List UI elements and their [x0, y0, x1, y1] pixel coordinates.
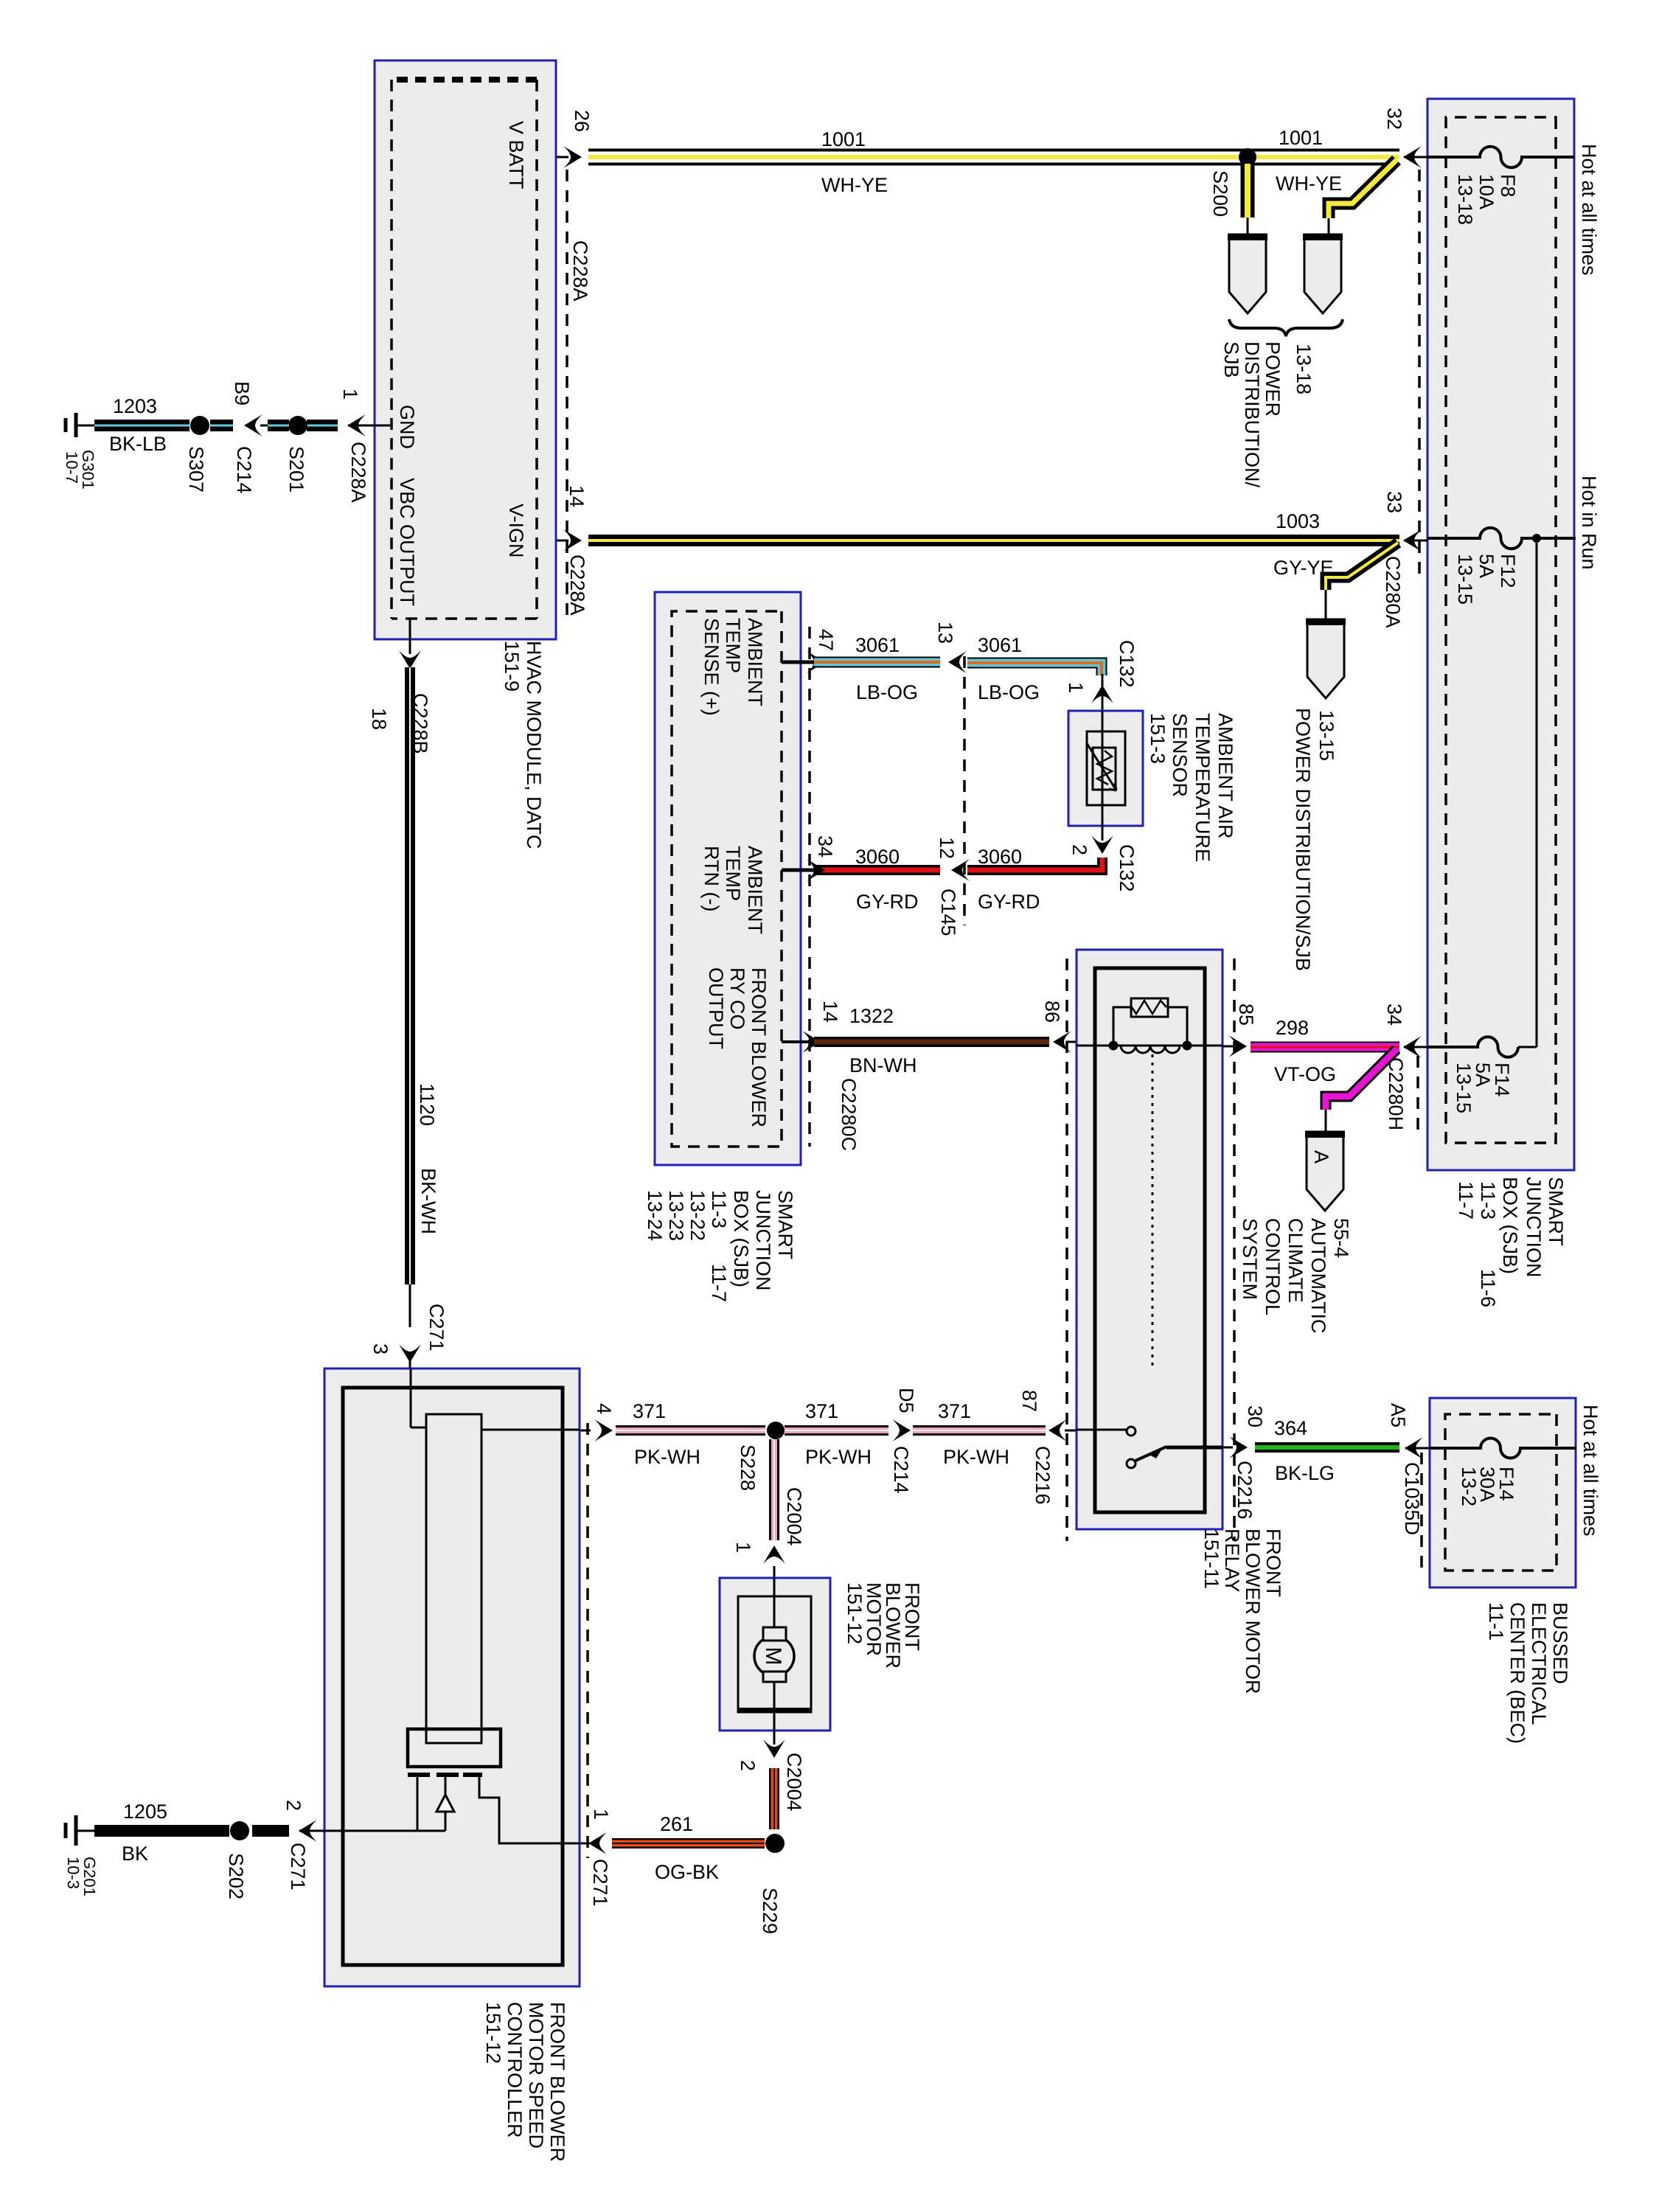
- front blower motor speed controller box: [324, 1368, 580, 1986]
- svg-text:CLIMATE: CLIMATE: [1284, 1218, 1307, 1303]
- label FRONT BLOWER MOTOR RELAY 151-11: [1200, 1528, 1284, 1694]
- svg-text:JUNCTION: JUNCTION: [1523, 1177, 1545, 1278]
- connector C271 arrow at controller pin 3: [399, 1344, 421, 1363]
- svg-text:1: 1: [732, 1542, 754, 1553]
- controller pin 4 arrow: [594, 1419, 613, 1441]
- label AMBIENT TEMP RTN (-): [700, 846, 766, 934]
- HVAC inner dashed boundary: [392, 77, 537, 83]
- connector C271 dashed line at controller: [586, 1423, 589, 1858]
- svg-text:26: 26: [571, 110, 593, 132]
- thermistor symbol: [1093, 748, 1116, 790]
- svg-text:11-3: 11-3: [708, 1190, 730, 1228]
- svg-text:11-7: 11-7: [708, 1264, 730, 1302]
- sensor pin 1 arrow C132: [1091, 685, 1113, 703]
- svg-text:A5: A5: [1387, 1403, 1409, 1427]
- splice S307: [190, 416, 209, 435]
- svg-text:SENSOR: SENSOR: [1169, 713, 1191, 797]
- svg-text:13-18: 13-18: [1293, 344, 1315, 394]
- svg-text:47: 47: [815, 629, 837, 651]
- svg-text:C2004: C2004: [783, 1487, 805, 1546]
- wire VBC OUTPUT pin: [409, 618, 411, 654]
- connector C145 arrow (12): [951, 859, 970, 881]
- svg-text:10-3: 10-3: [64, 1857, 83, 1889]
- svg-text:2: 2: [282, 1800, 305, 1811]
- controller pin 1 arrow C271: [588, 1832, 607, 1854]
- connector C2280A dashed line: [1418, 170, 1421, 582]
- svg-text:GY-RD: GY-RD: [978, 891, 1040, 913]
- connector C228B arrow: [399, 650, 421, 669]
- relay switch: [1127, 1427, 1135, 1436]
- fuse F8 10A 13-18: [1427, 147, 1574, 168]
- svg-text:86: 86: [1041, 1001, 1063, 1023]
- svg-text:13-15: 13-15: [1453, 1062, 1475, 1113]
- pin 14 (HVAC V-IGN): [563, 529, 582, 552]
- connector pin power distribution (from pin 32): [1304, 234, 1341, 313]
- wire S200 branch to SJB power distribution: [1241, 164, 1255, 218]
- svg-text:S229: S229: [759, 1888, 781, 1934]
- svg-text:FRONT BLOWER: FRONT BLOWER: [546, 2002, 568, 2162]
- svg-text:1322: 1322: [849, 1005, 894, 1027]
- svg-text:55-4: 55-4: [1330, 1218, 1352, 1258]
- wire 371 PK-WH segment (D5 to S228): [785, 1425, 888, 1436]
- connector C1035D dashed line: [1420, 1453, 1423, 1571]
- pin 34 (ambient): [782, 869, 814, 872]
- label FRONT BLOWER MOTOR SPEED CONTROLLER 151-12: [482, 2002, 568, 2162]
- pin 47: [782, 661, 814, 664]
- fuse F14 30A 13-2 (BEC): [1430, 1438, 1576, 1458]
- wire 1203 BK-LB: [94, 420, 189, 431]
- svg-text:F14: F14: [1495, 1467, 1517, 1501]
- wire 1003 elbow to power distribution pin: [1326, 543, 1398, 590]
- label HVAC MODULE, DATC 151-9: [501, 641, 545, 849]
- relay actuation dotted line: [1152, 1054, 1154, 1368]
- label SMART JUNCTION BOX (SJB) 11-3 11-6 11-7: [1455, 1177, 1567, 1307]
- pin 32: [1404, 156, 1427, 159]
- svg-text:14: 14: [566, 485, 588, 507]
- svg-text:SJB: SJB: [1220, 341, 1242, 378]
- relay resistor: [1131, 998, 1168, 1017]
- svg-text:Hot in Run: Hot in Run: [1578, 476, 1600, 570]
- svg-text:BK: BK: [122, 1843, 148, 1865]
- label FRONT BLOWER MOTOR 151-12: [844, 1582, 923, 1669]
- svg-text:C228A: C228A: [347, 442, 369, 503]
- wire hot-in-run bus: [1536, 538, 1538, 1047]
- connector C228A arrow at GND: [347, 414, 366, 437]
- svg-text:C2280H: C2280H: [1385, 1057, 1407, 1130]
- svg-text:FRONT BLOWER: FRONT BLOWER: [748, 967, 770, 1127]
- svg-text:HVAC MODULE, DATC: HVAC MODULE, DATC: [523, 641, 545, 849]
- relay pin 85 arrow: [1228, 1035, 1247, 1057]
- wire 364 BK-LG: [1255, 1442, 1399, 1453]
- svg-text:LB-OG: LB-OG: [856, 681, 918, 703]
- label 55-4 AUTOMATIC CLIMATE CONTROL SYSTEM: [1239, 1218, 1352, 1334]
- connector C1035D arrow: [1405, 1437, 1423, 1459]
- connector C228A dashed line at HVAC: [566, 170, 568, 619]
- controller internal: mosfet body: [408, 1729, 501, 1767]
- svg-text:33: 33: [1383, 491, 1405, 513]
- svg-text:C2280C: C2280C: [838, 1078, 860, 1151]
- svg-text:M: M: [761, 1647, 785, 1666]
- svg-text:3061: 3061: [978, 634, 1022, 656]
- wire 3060 GY-RD segment B: [967, 858, 1102, 870]
- svg-text:3: 3: [369, 1343, 392, 1354]
- svg-text:10A: 10A: [1475, 174, 1498, 209]
- junction dot hot-in-run bus: [1532, 534, 1541, 543]
- svg-text:F8: F8: [1497, 174, 1519, 198]
- svg-text:RY CO: RY CO: [726, 967, 748, 1030]
- connector C214 arrow D5: [892, 1419, 911, 1441]
- svg-text:POWER DISTRIBUTION/SJB: POWER DISTRIBUTION/SJB: [1292, 708, 1314, 971]
- svg-text:AUTOMATIC: AUTOMATIC: [1307, 1218, 1329, 1334]
- connector C2280C dashed line: [808, 627, 811, 1147]
- svg-text:RELAY: RELAY: [1221, 1528, 1243, 1593]
- svg-text:1205: 1205: [123, 1801, 167, 1823]
- wire BK segment: [252, 1825, 289, 1837]
- connector C214 arrow (B9): [244, 414, 262, 437]
- svg-text:MOTOR SPEED: MOTOR SPEED: [525, 2002, 547, 2149]
- controller pin 1 internal lead: [479, 1777, 580, 1843]
- svg-text:B9: B9: [231, 381, 253, 406]
- svg-text:BN-WH: BN-WH: [849, 1054, 917, 1077]
- svg-text:PK-WH: PK-WH: [805, 1446, 872, 1468]
- svg-text:87: 87: [1018, 1390, 1040, 1412]
- svg-text:C2004: C2004: [783, 1753, 805, 1812]
- wire 261 OG-BK: [612, 1838, 765, 1848]
- svg-text:JUNCTION: JUNCTION: [752, 1190, 774, 1291]
- svg-text:TEMP: TEMP: [722, 846, 744, 901]
- svg-text:CONTROL: CONTROL: [1262, 1218, 1284, 1315]
- svg-text:C214: C214: [233, 446, 255, 494]
- pin 33: [1404, 540, 1427, 542]
- svg-text:V BATT: V BATT: [505, 121, 527, 189]
- svg-text:85: 85: [1235, 1004, 1257, 1026]
- svg-text:WH-YE: WH-YE: [1276, 173, 1342, 195]
- svg-text:C132: C132: [1116, 844, 1138, 892]
- svg-text:C214: C214: [890, 1446, 912, 1494]
- connector C2216 arrow at relay pin 86: [1053, 1031, 1071, 1053]
- mosfet gate connection: [417, 1777, 419, 1831]
- wire 371 PK-WH segment (S228 to controller pin 4): [616, 1425, 765, 1436]
- relay pin 87 lead: [1077, 1429, 1127, 1431]
- svg-text:1001: 1001: [1279, 127, 1323, 149]
- svg-text:BLOWER: BLOWER: [882, 1582, 904, 1669]
- svg-text:C132: C132: [1116, 640, 1138, 688]
- svg-text:BK-LB: BK-LB: [109, 433, 167, 455]
- svg-text:151-9: 151-9: [501, 641, 523, 692]
- wire BK-LB segment: [307, 420, 338, 431]
- svg-text:151-3: 151-3: [1147, 713, 1169, 764]
- controller pin 2 lead: [324, 1830, 445, 1832]
- svg-text:2: 2: [1068, 844, 1091, 855]
- ground G301: [74, 413, 78, 437]
- svg-text:C1035D: C1035D: [1401, 1462, 1423, 1535]
- svg-text:BK-LG: BK-LG: [1275, 1462, 1335, 1484]
- pin 26: [563, 146, 582, 168]
- svg-text:11-1: 11-1: [1485, 1602, 1507, 1641]
- svg-text:GY-RD: GY-RD: [856, 891, 919, 913]
- svg-text:SYSTEM: SYSTEM: [1239, 1218, 1261, 1300]
- svg-text:371: 371: [633, 1400, 666, 1422]
- wire 298 elbow to A pin: [1326, 1049, 1397, 1110]
- svg-text:BOX (SJB): BOX (SJB): [1499, 1177, 1521, 1274]
- relay pin 30 arrow C2216: [1229, 1436, 1248, 1458]
- svg-text:13-15: 13-15: [1454, 554, 1476, 605]
- svg-text:C271: C271: [425, 1304, 448, 1352]
- svg-text:S228: S228: [737, 1444, 759, 1491]
- pin 14 RY CO OUTPUT: [782, 1040, 814, 1043]
- svg-text:5A: 5A: [1472, 1062, 1494, 1087]
- svg-text:371: 371: [805, 1400, 838, 1422]
- wire 3061 LB-OG segment B: [967, 663, 1102, 675]
- svg-text:BOX (SJB): BOX (SJB): [730, 1190, 752, 1287]
- svg-text:OUTPUT: OUTPUT: [705, 967, 727, 1049]
- connector C145 arrow (13): [948, 651, 967, 673]
- svg-text:F12: F12: [1497, 554, 1519, 588]
- pin 34 SJB: [1404, 1046, 1427, 1048]
- splice S200: [1239, 148, 1256, 166]
- motor symbol M: [754, 1636, 794, 1676]
- wire 2004 PK-WH branch to motor: [769, 1439, 779, 1540]
- splice S228: [767, 1422, 785, 1439]
- wire 3061 LB-OG segment A: [814, 657, 940, 668]
- svg-text:261: 261: [660, 1813, 693, 1835]
- svg-text:SENSE (+): SENSE (+): [700, 618, 723, 716]
- wire 1001 elbow to power distribution pin: [1329, 160, 1397, 218]
- wire 298 VT-OG: [1251, 1042, 1399, 1053]
- svg-text:FRONT: FRONT: [1262, 1528, 1284, 1597]
- label SMART JUNCTION BOX (SJB) pages: [644, 1190, 796, 1302]
- svg-text:1003: 1003: [1276, 510, 1320, 532]
- HVAC module DATC box: [375, 60, 556, 639]
- svg-text:11-7: 11-7: [1455, 1181, 1477, 1220]
- svg-text:A: A: [1310, 1150, 1332, 1164]
- svg-text:C2216: C2216: [1234, 1461, 1256, 1520]
- svg-text:13-15: 13-15: [1315, 710, 1338, 761]
- label AMBIENT TEMP SENSE (+): [700, 618, 766, 716]
- ambient air temperature sensor box: [1068, 711, 1143, 826]
- svg-text:BK-WH: BK-WH: [417, 1168, 439, 1234]
- svg-text:VT-OG: VT-OG: [1274, 1063, 1336, 1085]
- wire BK-LB segment: [210, 420, 233, 431]
- svg-text:C271: C271: [589, 1859, 611, 1907]
- svg-text:14: 14: [819, 1001, 841, 1023]
- svg-text:13: 13: [934, 622, 956, 644]
- svg-text:13-23: 13-23: [665, 1190, 687, 1241]
- svg-text:OG-BK: OG-BK: [655, 1861, 719, 1883]
- svg-text:298: 298: [1276, 1017, 1309, 1039]
- svg-text:364: 364: [1274, 1417, 1307, 1439]
- svg-text:BLOWER MOTOR: BLOWER MOTOR: [1242, 1528, 1264, 1694]
- label 13-18 POWER DISTRIBUTION/SJB: [1220, 341, 1315, 488]
- svg-text:G201: G201: [80, 1857, 99, 1896]
- svg-text:1: 1: [590, 1809, 612, 1820]
- svg-text:DISTRIBUTION/: DISTRIBUTION/: [1241, 341, 1263, 488]
- svg-text:BUSSED: BUSSED: [1549, 1602, 1571, 1684]
- svg-text:G301: G301: [79, 450, 97, 490]
- svg-text:S201: S201: [285, 446, 307, 493]
- svg-text:FRONT: FRONT: [901, 1582, 923, 1651]
- svg-text:151-12: 151-12: [844, 1582, 866, 1644]
- connector pin A automatic climate control: [1307, 1132, 1343, 1211]
- svg-text:13-2: 13-2: [1458, 1467, 1480, 1506]
- relay coil line pins 86-85: [1077, 1045, 1222, 1047]
- wire 1205 BK: [94, 1825, 229, 1837]
- svg-text:151-12: 151-12: [482, 2002, 504, 2064]
- svg-text:3061: 3061: [855, 634, 900, 656]
- svg-text:Hot at all times: Hot at all times: [1578, 144, 1600, 276]
- svg-text:3060: 3060: [855, 846, 900, 868]
- label AMBIENT AIR TEMPERATURE SENSOR 151-3: [1147, 713, 1237, 862]
- svg-text:151-11: 151-11: [1200, 1528, 1222, 1589]
- svg-text:SMART: SMART: [774, 1190, 796, 1259]
- svg-text:AMBIENT AIR: AMBIENT AIR: [1214, 713, 1237, 839]
- connector C2216 dashed lines: [1233, 959, 1236, 1541]
- svg-text:TEMPERATURE: TEMPERATURE: [1192, 713, 1214, 862]
- svg-text:C2280A: C2280A: [1382, 556, 1404, 628]
- wire GND pin HVAC: [348, 425, 390, 427]
- svg-text:S307: S307: [185, 446, 207, 493]
- controller pin 2 arrow C271: [299, 1830, 324, 1832]
- svg-text:RTN (-): RTN (-): [700, 846, 723, 911]
- front blower motor relay box: [1077, 950, 1222, 1529]
- controller internal: drain plate: [426, 1414, 481, 1743]
- svg-text:CENTER (BEC): CENTER (BEC): [1506, 1602, 1528, 1744]
- svg-text:S200: S200: [1209, 170, 1231, 217]
- svg-text:13-24: 13-24: [644, 1190, 666, 1241]
- svg-text:1: 1: [339, 389, 361, 400]
- svg-text:LB-OG: LB-OG: [978, 681, 1040, 703]
- wire 3060 GY-RD segment A: [814, 865, 940, 875]
- svg-text:CONTROLLER: CONTROLLER: [504, 2002, 526, 2138]
- ground G201: [74, 1815, 78, 1846]
- svg-text:11-6: 11-6: [1477, 1269, 1499, 1307]
- svg-text:AMBIENT: AMBIENT: [744, 618, 766, 706]
- wire 2004 OG-BK motor to S229: [769, 1768, 779, 1829]
- label FRONT BLOWER RY CO OUTPUT: [705, 967, 770, 1127]
- bussed electrical center BEC: [1430, 1398, 1576, 1587]
- splice S202: [230, 1821, 249, 1840]
- svg-text:4: 4: [593, 1403, 615, 1414]
- relay pin 30 lead: [1166, 1446, 1222, 1450]
- connector C145 dashed line: [963, 656, 966, 925]
- splice S229: [765, 1834, 785, 1853]
- relay coil: [1121, 1046, 1180, 1053]
- wire 1001 WH-YE vertical: [588, 149, 1399, 166]
- svg-text:34: 34: [814, 835, 836, 858]
- svg-text:S202: S202: [225, 1853, 247, 1899]
- svg-text:TEMP: TEMP: [722, 618, 744, 673]
- wire 1322 BN-WH: [814, 1037, 1049, 1047]
- wire 1120 BK-WH: [405, 667, 415, 1284]
- svg-text:12: 12: [936, 837, 958, 859]
- label 13-15 POWER DISTRIBUTION/SJB: [1292, 708, 1338, 971]
- motor pin 1 arrow: [763, 1545, 785, 1564]
- svg-text:1203: 1203: [113, 395, 157, 417]
- svg-text:3060: 3060: [978, 846, 1022, 868]
- connector pin power distribution (from S200): [1229, 234, 1266, 313]
- controller pin 4 lead: [481, 1429, 580, 1431]
- svg-text:D5: D5: [895, 1388, 917, 1413]
- svg-text:POWER: POWER: [1262, 341, 1284, 417]
- svg-text:VBC OUTPUT: VBC OUTPUT: [396, 478, 418, 606]
- fuse F14 5A 13-15 (SJB): [1518, 1046, 1537, 1048]
- wire 371 PK-WH segment (relay to D5): [913, 1425, 1046, 1436]
- svg-text:5A: 5A: [1475, 554, 1498, 578]
- svg-text:10-7: 10-7: [63, 451, 81, 484]
- svg-text:32: 32: [1383, 108, 1405, 130]
- connector C2280H dashed line: [1416, 1056, 1419, 1135]
- svg-text:18: 18: [368, 708, 390, 730]
- svg-text:ELECTRICAL: ELECTRICAL: [1528, 1602, 1550, 1725]
- controller pin 3 lead: [410, 1368, 412, 1427]
- mosfet source connection with arrow: [445, 1777, 447, 1831]
- svg-text:Hot at all times: Hot at all times: [1579, 1405, 1601, 1537]
- label BUSSED ELECTRICAL CENTER (BEC) 11-1: [1485, 1602, 1571, 1744]
- svg-text:1120: 1120: [416, 1083, 438, 1126]
- svg-text:F14: F14: [1491, 1062, 1513, 1097]
- svg-text:C145: C145: [937, 888, 959, 936]
- svg-text:371: 371: [938, 1400, 971, 1422]
- splice S201: [288, 416, 307, 435]
- svg-text:1: 1: [1065, 682, 1087, 693]
- svg-text:13-22: 13-22: [686, 1190, 709, 1241]
- svg-text:C271: C271: [287, 1843, 309, 1891]
- svg-text:AMBIENT: AMBIENT: [744, 846, 766, 934]
- smart junction box SJB: [1427, 99, 1574, 1170]
- connector pin power distribution 13-15: [1307, 619, 1344, 698]
- svg-text:PK-WH: PK-WH: [943, 1446, 1009, 1468]
- svg-text:SMART: SMART: [1545, 1177, 1567, 1246]
- svg-text:30: 30: [1244, 1405, 1266, 1427]
- svg-text:13-18: 13-18: [1454, 174, 1476, 225]
- svg-text:WH-YE: WH-YE: [821, 174, 888, 196]
- fuse F12 5A 13-15: [1427, 528, 1576, 549]
- wire BK-LB segment: [268, 420, 289, 431]
- svg-text:C228A: C228A: [566, 554, 588, 616]
- sensor pin 2 arrow C132: [1102, 826, 1104, 841]
- front blower motor box: [720, 1578, 830, 1731]
- relay pin 87 arrow C2216: [1048, 1419, 1067, 1441]
- svg-text:C228A: C228A: [569, 240, 591, 302]
- svg-text:11-3: 11-3: [1477, 1181, 1499, 1220]
- brace power distribution group: [1229, 319, 1343, 336]
- svg-text:PK-WH: PK-WH: [634, 1446, 700, 1468]
- svg-text:GND: GND: [396, 405, 418, 449]
- svg-text:2: 2: [737, 1760, 759, 1771]
- svg-text:C2216: C2216: [1032, 1446, 1054, 1505]
- motor pin 2 arrow: [773, 1731, 776, 1745]
- svg-text:V-IGN: V-IGN: [505, 504, 527, 558]
- wire 1003 GY-YE vertical: [588, 535, 1399, 546]
- svg-text:MOTOR: MOTOR: [863, 1582, 885, 1656]
- svg-text:34: 34: [1383, 1004, 1405, 1026]
- smart junction box (ambient section): [655, 592, 801, 1165]
- svg-text:1001: 1001: [821, 128, 866, 150]
